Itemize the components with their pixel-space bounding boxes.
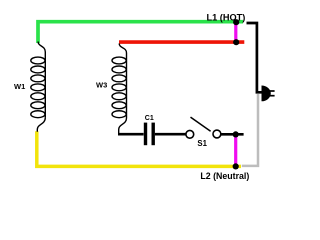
coil W1 (31, 42, 45, 132)
wire S1 to node (221, 133, 244, 136)
switch S1 (186, 130, 194, 138)
node red junction (233, 39, 239, 45)
coil W3 (112, 44, 127, 134)
wire yellow L2 return (37, 131, 241, 166)
wire gray neutral from plug (242, 94, 258, 166)
wire red winding W3 to node (119, 40, 244, 44)
wire W3 to C1 (118, 133, 144, 136)
wire black hot to plug (247, 23, 262, 92)
wire magenta node L2 (234, 134, 237, 166)
plug prong lower (270, 95, 275, 97)
svg-text:L2 (Neutral): L2 (Neutral) (200, 171, 249, 181)
wire C1 to S1 (155, 133, 186, 136)
wire green L1 feed (38, 22, 243, 43)
plug body (262, 86, 271, 102)
wire magenta node L1 (234, 22, 237, 42)
node switch junction (233, 131, 239, 137)
svg-text:S1: S1 (197, 139, 207, 148)
svg-text:W3: W3 (96, 80, 107, 89)
node L2 yellow junction (233, 163, 239, 169)
svg-text:C1: C1 (145, 115, 154, 122)
plug prong upper (270, 90, 275, 92)
node L1 green junction (233, 19, 239, 25)
svg-text:W1: W1 (14, 82, 25, 91)
svg-text:L1 (HOT): L1 (HOT) (207, 13, 246, 23)
capacitor C1 (144, 123, 147, 146)
